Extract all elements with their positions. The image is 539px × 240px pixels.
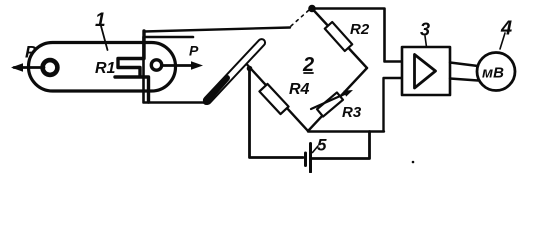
resistor R3 (adjustable) — [317, 93, 343, 117]
right force arrow P — [162, 64, 198, 67]
label 3 leader — [425, 36, 427, 47]
label 2 underline — [304, 72, 313, 74]
svg-text:P: P — [189, 43, 199, 59]
wire (thick lead bar from specimen corner to bridge left node) — [202, 38, 266, 106]
svg-text:R1: R1 — [95, 60, 116, 77]
left force arrow P — [14, 66, 44, 69]
millivoltmeter 4 — [477, 53, 515, 91]
bridge edge R-B — [308, 68, 367, 131]
svg-text:мВ: мВ — [482, 65, 504, 82]
strain gauge R1 meander — [115, 31, 149, 102]
label 1 leader — [101, 26, 108, 50]
wire: node T to amplifier upper input — [313, 9, 402, 62]
resistor R2 — [325, 22, 353, 51]
plate / mounting tab outline — [144, 37, 206, 103]
wire: dashed continuation to node T — [291, 10, 309, 26]
svg-text:R3: R3 — [342, 104, 362, 121]
wire (solid lower portion of lead bar) — [206, 78, 227, 102]
node L junction blob — [247, 66, 253, 72]
right hole of specimen — [151, 60, 161, 70]
amplifier triangle — [415, 55, 436, 89]
left hole of specimen — [43, 60, 58, 75]
bridge edge T-R — [312, 9, 367, 69]
svg-text:3: 3 — [420, 20, 430, 40]
wire: gauge lead to bridge top (horizontal run) — [144, 28, 290, 32]
wire: bridge left node down to battery — [250, 68, 304, 158]
label 4 leader — [500, 33, 505, 49]
svg-text:R4: R4 — [289, 81, 310, 98]
wire: battery to bottom net — [312, 132, 370, 159]
R3 adjustment arrow — [311, 93, 348, 110]
label 5 leader — [313, 146, 319, 153]
svg-text:1: 1 — [95, 10, 106, 31]
svg-text:R2: R2 — [350, 21, 370, 38]
wires: amplifier to meter — [450, 63, 478, 67]
svg-text:4: 4 — [500, 18, 512, 40]
resistor R4 — [259, 84, 288, 114]
wire: node B to amplifier lower input — [308, 78, 402, 132]
svg-text:P: P — [25, 43, 37, 62]
svg-text:5: 5 — [317, 136, 327, 155]
amplifier box 3 — [402, 47, 450, 95]
bridge edge B-L — [247, 65, 308, 132]
battery 5 — [304, 153, 307, 166]
specimen body (dog-bone sample, item 1) — [29, 43, 176, 92]
svg-text:2: 2 — [302, 54, 314, 76]
ink speck — [412, 161, 415, 164]
node T (bridge top junction dot) — [308, 5, 316, 13]
